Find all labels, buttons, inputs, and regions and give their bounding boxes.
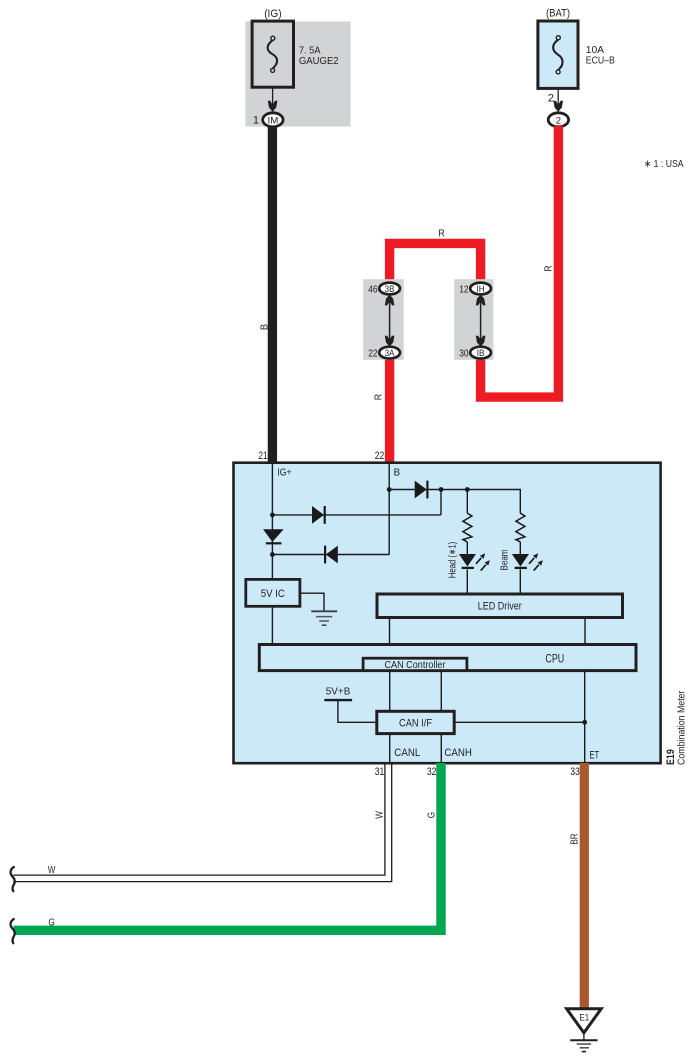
wire G green pin 32	[14, 763, 442, 930]
connector block 3B/3A gray background	[363, 279, 403, 360]
svg-text:31: 31	[375, 766, 385, 778]
arrow link IH to IB	[480, 298, 482, 344]
svg-text:ET: ET	[589, 750, 599, 762]
svg-text:5V+B: 5V+B	[326, 686, 351, 698]
IG fuse block gray background	[246, 22, 351, 127]
combination meter box E19	[234, 463, 661, 764]
connector 3B	[379, 283, 400, 295]
diode D3 left-pointing	[326, 546, 338, 564]
svg-text:GAUGE2: GAUGE2	[299, 55, 339, 67]
svg-text:IH: IH	[477, 284, 485, 294]
LED Driver box	[377, 594, 623, 618]
svg-text:CAN Controller: CAN Controller	[385, 659, 446, 671]
svg-text:5V IC: 5V IC	[261, 588, 285, 600]
svg-text:E1: E1	[579, 1013, 589, 1024]
wire fuse F1 to connector IM	[272, 87, 274, 113]
wire resistor beam to LED	[519, 542, 521, 554]
svg-text:IM: IM	[268, 115, 279, 126]
svg-text:12: 12	[459, 283, 469, 295]
wire LED Driver to CPU right	[584, 618, 586, 645]
wire CAN Controller to CAN I/F left	[389, 671, 391, 712]
svg-text:2: 2	[556, 115, 561, 126]
wire R red 3A to pin 22	[385, 359, 394, 464]
svg-text:R: R	[438, 228, 445, 240]
svg-text:CANL: CANL	[394, 747, 420, 759]
diode D1 right-pointing	[312, 506, 324, 524]
wire BR brown pin 33	[580, 763, 589, 1009]
wire fuse F2 to connector 2	[557, 88, 559, 113]
svg-text:46: 46	[368, 283, 378, 295]
svg-text:32: 32	[427, 766, 437, 778]
arrow into connector IM	[268, 101, 278, 112]
wire LED beam to LED Driver	[519, 569, 521, 594]
svg-text:ECU–B: ECU–B	[586, 54, 615, 66]
junction dots	[270, 513, 275, 518]
svg-text:W: W	[48, 865, 56, 876]
svg-text:B: B	[259, 324, 270, 331]
fuse F1 element	[268, 40, 277, 69]
svg-text:R: R	[374, 394, 385, 400]
svg-text:Beam: Beam	[500, 550, 511, 571]
wire head resistor branch	[466, 490, 468, 514]
resistor head	[463, 513, 472, 542]
connector block IH/IB gray background	[454, 279, 493, 360]
svg-text:W: W	[374, 811, 385, 819]
svg-text:G: G	[427, 812, 438, 819]
wire CAN I/F to ET column	[454, 721, 585, 723]
svg-text:CANH: CANH	[444, 747, 472, 759]
connector 2	[548, 113, 568, 127]
break symbol W wire	[11, 867, 15, 891]
arrow link 3B to 3A	[389, 298, 391, 344]
connector IH	[470, 283, 491, 295]
junction dot ET	[582, 720, 587, 725]
svg-text:∗ 1 : USA: ∗ 1 : USA	[644, 158, 684, 170]
fuse F2 element	[553, 40, 562, 71]
wire branch at 441	[440, 490, 442, 515]
svg-text:LED Driver: LED Driver	[478, 601, 522, 613]
wire D3 row	[272, 554, 389, 556]
svg-text:CAN I/F: CAN I/F	[399, 717, 432, 729]
svg-text:22: 22	[375, 450, 385, 462]
svg-text:(IG): (IG)	[264, 8, 281, 20]
svg-text:30: 30	[459, 347, 469, 359]
wire B black IM to pin 21	[268, 127, 277, 464]
LED beam	[512, 554, 529, 567]
ground E1	[567, 1009, 602, 1033]
wire D2 row	[389, 490, 520, 514]
fuse F1 7.5A GAUGE2 body	[252, 21, 293, 87]
wire CPU to pin 33	[584, 671, 586, 763]
CPU box	[259, 645, 636, 671]
wire resistor head to LED	[466, 542, 468, 554]
svg-text:1: 1	[253, 115, 259, 127]
LED head	[459, 554, 476, 567]
svg-text:CPU: CPU	[545, 653, 564, 665]
svg-text:3A: 3A	[385, 348, 395, 358]
svg-text:IB: IB	[477, 348, 485, 358]
connector IB	[470, 347, 491, 359]
CAN Controller box	[363, 658, 467, 670]
wire B vertical	[388, 464, 390, 555]
CAN I/F box	[377, 711, 454, 733]
svg-text:Head (∗1): Head (∗1)	[448, 542, 459, 579]
diode D4 down-pointing	[263, 529, 284, 542]
svg-text:B: B	[394, 467, 401, 479]
wire D1 row	[272, 514, 441, 516]
resistor beam	[516, 513, 525, 542]
svg-text:G: G	[48, 917, 55, 928]
diode D2 right-pointing	[415, 481, 427, 499]
5V IC box U1	[246, 579, 300, 606]
svg-text:33: 33	[570, 766, 580, 778]
svg-text:21: 21	[258, 450, 268, 462]
break symbol G wire	[11, 919, 15, 943]
connector IM	[263, 113, 283, 127]
svg-text:(BAT): (BAT)	[546, 7, 570, 19]
wire CANH to pin 32	[440, 734, 442, 763]
svg-text:22: 22	[368, 347, 378, 359]
wire LED head to LED Driver	[466, 569, 468, 594]
wire R red IH to 3B top loop	[390, 243, 481, 283]
ground internal near 5V IC	[300, 593, 324, 610]
wire R red BAT to connector IB	[481, 126, 559, 397]
svg-text:3B: 3B	[385, 284, 395, 294]
fuse F2 (BAT) body	[538, 21, 578, 88]
wire CANL to pin 31	[389, 734, 391, 763]
wire LED Driver to CPU left	[389, 618, 391, 645]
svg-text:Combination Meter: Combination Meter	[676, 690, 688, 765]
svg-text:BR: BR	[569, 834, 580, 845]
connector 3A	[379, 347, 400, 359]
svg-text:R: R	[544, 265, 555, 271]
svg-text:2: 2	[548, 93, 554, 105]
wire W white pin 31	[13, 763, 392, 882]
arrow into connector 2	[553, 101, 563, 112]
svg-text:IG+: IG+	[277, 467, 291, 479]
wire CAN Controller to CAN I/F right	[440, 671, 442, 712]
wire IG+ vertical	[271, 464, 273, 645]
